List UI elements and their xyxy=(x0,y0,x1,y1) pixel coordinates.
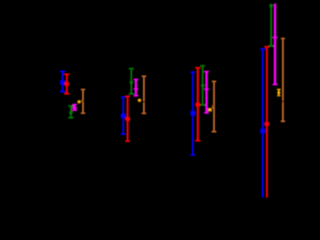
cluster 2 : gold star marker Y2 xyxy=(138,99,141,102)
cluster 4 : red errorbar R4 xyxy=(264,47,269,198)
cluster 3 : gold marker Y3 xyxy=(208,108,212,111)
cluster 2 : magenta errorbar M2 xyxy=(134,79,139,95)
cluster 3 : red errorbar R3 xyxy=(195,68,200,141)
cluster 1 : blue errorbar B1 xyxy=(60,71,65,91)
cluster 2 : blue errorbar B2 xyxy=(121,97,126,134)
cluster 1 : gold star marker Y1 xyxy=(78,100,81,103)
cluster 2 : brown errorbar N2 xyxy=(142,76,147,113)
cluster 2 : green errorbar G2 xyxy=(129,69,134,94)
cluster 4 : green errorbar G4 xyxy=(269,3,274,46)
cluster 3 : magenta errorbar M3 xyxy=(204,72,209,113)
cluster 4 : magenta errorbar M4 xyxy=(273,4,278,85)
cluster 1 : magenta errorbar M1 xyxy=(72,105,77,111)
cluster 4 : brown errorbar N4 xyxy=(281,39,285,122)
cluster 1 : red errorbar R1 xyxy=(64,74,69,94)
cluster 4 : blue errorbar B4 xyxy=(260,49,265,198)
cluster 1 : green errorbar G1 xyxy=(68,106,73,118)
cluster 1 : brown errorbar N1 xyxy=(81,90,85,114)
cluster 4 : gold errorbar Y4 xyxy=(277,90,281,96)
cluster 3 : brown errorbar N3 xyxy=(212,81,217,131)
cluster 3 : blue errorbar B3 xyxy=(190,72,195,155)
cluster 3 : green errorbar G3 xyxy=(200,66,205,105)
cluster 2 : red errorbar R2 xyxy=(125,96,130,141)
